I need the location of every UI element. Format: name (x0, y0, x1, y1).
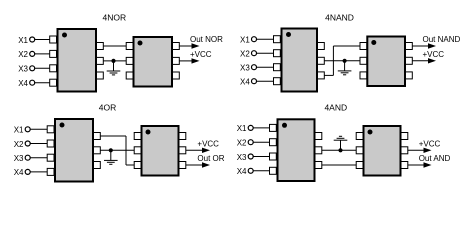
U3 output pin 6 (318, 57, 325, 64)
op IC U2 body (134, 37, 173, 87)
wire X3 to U5 pin 3 (30, 157, 48, 159)
wire X1 to U3 pin 1 (257, 38, 275, 40)
input terminal X4 (237, 167, 253, 176)
U3 pin 3 (274, 64, 281, 71)
wire jog to U4 pin 1 (333, 45, 360, 47)
U2 pin 1 (126, 43, 133, 50)
wire U5 pin 5 stub (100, 135, 126, 137)
op IC U8 body (364, 126, 401, 176)
U2 pin 2 (126, 57, 133, 64)
U3 pin-1 marker dot (286, 32, 291, 37)
op IC U4 body (367, 37, 405, 87)
U6 output pin 4 (179, 133, 186, 140)
output arrow +VCC (186, 148, 210, 153)
U4 pin-1 marker dot (371, 40, 376, 45)
U6 pin 2 (134, 147, 141, 154)
U4 output pin 5 (406, 57, 413, 64)
U7 output pin 7 (315, 162, 322, 169)
wire X2 to U5 pin 2 (30, 143, 48, 145)
U4 output pin 4 (406, 43, 413, 50)
U1 output pin 7 (97, 72, 104, 79)
wire U7 pin 7 to U8 pin 3 (322, 164, 356, 166)
wire X1 to U7 pin 1 (253, 127, 270, 129)
U8 pin 2 (356, 147, 363, 154)
input terminal X1 (18, 36, 34, 45)
wire U3 pin 7 stub (324, 74, 333, 76)
svg-text:4AND: 4AND (324, 103, 347, 113)
wire U1 pin 6 to U2 pin 2 (common) (103, 60, 126, 62)
svg-text:X3: X3 (14, 154, 24, 163)
svg-text:+VCC: +VCC (419, 139, 441, 148)
U5 output pin 5 (94, 133, 101, 140)
U1 pin-1 marker dot (62, 33, 67, 38)
ground (338, 61, 352, 75)
svg-text:X3: X3 (240, 64, 250, 73)
U8 pin-1 marker dot (368, 130, 373, 135)
U4 pin 3 (360, 72, 367, 79)
input terminal X4 (14, 168, 30, 177)
svg-text:4OR: 4OR (99, 103, 116, 113)
input terminal X1 (237, 124, 253, 133)
U1 pin 1 (50, 36, 57, 43)
U5 output pin 7 (94, 162, 101, 169)
output arrow Out OR (186, 162, 210, 167)
input terminal X2 (240, 50, 256, 59)
U2 output pin 4 (173, 43, 180, 50)
junction node on common net (109, 148, 113, 152)
U8 output pin 4 (401, 133, 408, 140)
U5 pin-1 marker dot (60, 123, 65, 128)
U1 output pin 5 (97, 43, 104, 50)
U6 output pin 6 (179, 162, 186, 169)
svg-text:X4: X4 (18, 79, 28, 88)
ground (107, 61, 121, 75)
svg-text:X4: X4 (237, 167, 247, 176)
svg-text:Out OR: Out OR (197, 154, 224, 163)
wire X1 to U1 pin 1 (35, 39, 51, 41)
input terminal X2 (237, 139, 253, 148)
svg-text:+VCC: +VCC (197, 139, 219, 148)
svg-text:Out NOR: Out NOR (190, 35, 223, 44)
U5 output pin 6 (94, 147, 101, 154)
wire X4 to U1 pin 4 (35, 82, 51, 84)
U3 pin 2 (274, 50, 281, 57)
svg-text:4NAND: 4NAND (325, 12, 354, 22)
output arrow Out AND (408, 162, 432, 167)
output arrow +VCC (408, 148, 432, 153)
op IC U7 body (278, 119, 315, 181)
svg-text:X1: X1 (18, 36, 28, 45)
U2 pin 3 (126, 72, 133, 79)
svg-text:X1: X1 (237, 124, 247, 133)
op IC U1 body (58, 29, 97, 92)
svg-text:Out AND: Out AND (419, 154, 451, 163)
wire X4 to U7 pin 4 (253, 170, 270, 172)
U1 output pin 6 (97, 57, 104, 64)
U4 pin 2 (360, 57, 367, 64)
input terminal X1 (240, 36, 256, 45)
U1 pin 4 (50, 79, 57, 86)
U8 output pin 5 (401, 147, 408, 154)
wire U3 pin 6 to U4 pin 2 (common) (324, 60, 360, 62)
input terminal X4 (240, 78, 256, 87)
junction node on common net (343, 59, 347, 63)
wire vertical jog segment (332, 46, 334, 75)
U8 pin 1 (356, 133, 363, 140)
U6 pin-1 marker dot (146, 130, 151, 135)
wire X4 to U5 pin 4 (30, 171, 48, 173)
wire X1 to U5 pin 1 (30, 128, 48, 130)
input terminal X2 (18, 50, 34, 59)
U7 output pin 5 (315, 133, 322, 140)
wire X3 to U1 pin 3 (35, 67, 51, 69)
svg-text:X4: X4 (240, 78, 250, 87)
wire U5 pin 6 to U6 pin 2 (common) (100, 149, 134, 151)
U7 pin 2 (270, 139, 277, 146)
wire X3 to U3 pin 3 (257, 66, 275, 68)
wire X2 to U1 pin 2 (35, 53, 51, 55)
U5 pin 1 (47, 126, 54, 133)
input terminal X3 (18, 65, 34, 74)
ground (334, 136, 348, 150)
U6 pin 3 (134, 162, 141, 169)
svg-text:X1: X1 (240, 36, 250, 45)
input terminal X2 (14, 140, 30, 149)
U1 pin 2 (50, 50, 57, 57)
U3 output pin 7 (318, 72, 325, 79)
U7 pin 4 (270, 167, 277, 174)
U5 pin 2 (47, 140, 54, 147)
U3 pin 1 (274, 36, 281, 43)
U6 pin 1 (134, 133, 141, 140)
U8 pin 3 (356, 162, 363, 169)
output arrow +VCC (179, 58, 199, 63)
U7 pin 1 (270, 124, 277, 131)
U2 pin-1 marker dot (138, 41, 143, 46)
input terminal X1 (14, 126, 30, 135)
wire U7 pin 6 to U8 pin 2 (common) (322, 149, 356, 151)
op IC U5 body (55, 119, 93, 182)
output arrow Out NOR (179, 43, 199, 48)
svg-text:X3: X3 (237, 153, 247, 162)
U1 pin 3 (50, 65, 57, 72)
svg-text:X1: X1 (14, 126, 24, 135)
op IC U3 body (282, 29, 318, 92)
input terminal X4 (18, 79, 34, 88)
output arrow Out NAND (412, 43, 436, 48)
U6 output pin 5 (179, 147, 186, 154)
U7 output pin 6 (315, 147, 322, 154)
output arrow +VCC (412, 58, 436, 63)
junction node on common net (338, 148, 342, 152)
wire X4 to U3 pin 4 (257, 80, 275, 82)
U5 pin 3 (47, 154, 54, 161)
svg-text:X4: X4 (14, 168, 24, 177)
svg-text:X2: X2 (240, 50, 250, 59)
U7 pin-1 marker dot (282, 123, 287, 128)
svg-text:X2: X2 (18, 50, 28, 59)
U4 pin 1 (360, 43, 367, 50)
svg-text:X2: X2 (14, 140, 24, 149)
svg-text:+VCC: +VCC (423, 50, 445, 59)
wire U1 pin 5 to U2 pin 1 (103, 45, 126, 47)
input terminal X3 (240, 64, 256, 73)
U3 output pin 5 (318, 43, 325, 50)
wire X3 to U7 pin 3 (253, 156, 270, 158)
wire X2 to U7 pin 2 (253, 141, 270, 143)
op IC U6 body (142, 126, 179, 176)
U7 pin 3 (270, 153, 277, 160)
svg-text:+VCC: +VCC (190, 50, 212, 59)
svg-text:X3: X3 (18, 65, 28, 74)
svg-text:Out NAND: Out NAND (423, 35, 461, 44)
svg-text:4NOR: 4NOR (102, 12, 126, 22)
U2 output pin 6 (173, 72, 180, 79)
U4 output pin 6 (406, 72, 413, 79)
U5 pin 4 (47, 168, 54, 175)
input terminal X3 (14, 154, 30, 163)
U3 pin 4 (274, 78, 281, 85)
wire vertical jog segment (125, 136, 127, 165)
U2 output pin 5 (173, 57, 180, 64)
ground (104, 150, 118, 164)
wire jog to U6 pin 3 (126, 164, 134, 166)
wire X2 to U3 pin 2 (257, 52, 275, 54)
junction node on common net (111, 59, 115, 63)
input terminal X3 (237, 153, 253, 162)
svg-text:X2: X2 (237, 139, 247, 148)
U8 output pin 6 (401, 162, 408, 169)
